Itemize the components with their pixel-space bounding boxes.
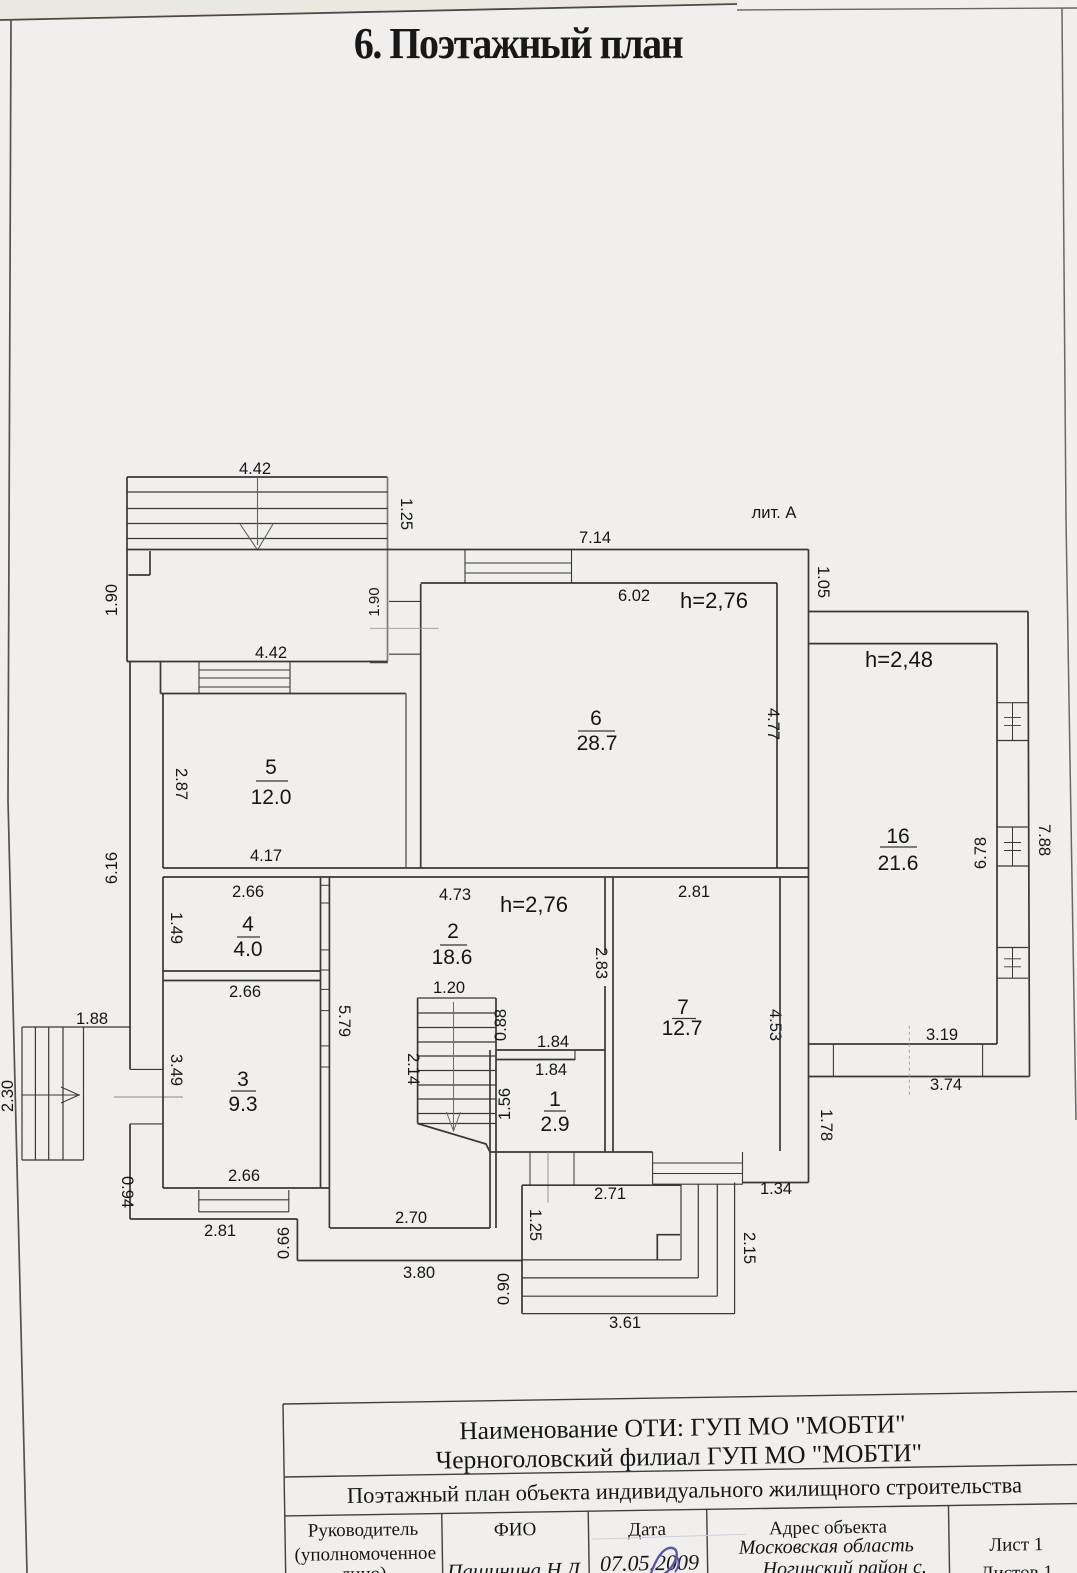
- stairs block: [417, 998, 419, 1124]
- wall rooms 2/7: [604, 877, 606, 953]
- svg-text:0.94: 0.94: [118, 1176, 136, 1208]
- svg-text:лит. А: лит. А: [752, 504, 797, 522]
- dim line 4.42 lower: [127, 661, 388, 663]
- faint guide line in date cell: [592, 1534, 746, 1539]
- room6 inner right wall: [776, 583, 778, 868]
- left porch steps: [21, 1027, 23, 1160]
- svg-text:2.83: 2.83: [592, 947, 610, 979]
- svg-text:2.30: 2.30: [0, 1080, 17, 1112]
- svg-text:(уполномоченное: (уполномоченное: [294, 1543, 436, 1566]
- door dash left: [114, 1096, 183, 1098]
- window room6 top: [464, 550, 466, 583]
- svg-text:h=2,76: h=2,76: [680, 588, 748, 613]
- stairs bevel: [418, 1124, 490, 1153]
- wall connector: [160, 662, 162, 694]
- wing windows right wall: [997, 702, 1028, 704]
- svg-text:Лист 1: Лист 1: [989, 1534, 1043, 1556]
- svg-text:h=2,48: h=2,48: [865, 647, 933, 672]
- svg-text:4.77: 4.77: [764, 708, 782, 740]
- svg-text:5.79: 5.79: [335, 1005, 353, 1037]
- title block table: [283, 1391, 1077, 1573]
- wing bottom door band: [832, 1044, 834, 1077]
- mid ticks 1.90: [389, 600, 421, 602]
- window room5 top: [198, 662, 200, 694]
- svg-text:4.42: 4.42: [239, 460, 271, 478]
- room1 walls: [489, 1050, 491, 1152]
- svg-text:7.88: 7.88: [1035, 824, 1053, 856]
- main outer right wall x808: [808, 550, 810, 1183]
- svg-text:1.56: 1.56: [496, 1088, 514, 1120]
- room1 top wall: [496, 1049, 605, 1051]
- table divider 2: [285, 1503, 1077, 1516]
- svg-text:3.61: 3.61: [609, 1314, 641, 1332]
- svg-text:2.66: 2.66: [232, 883, 264, 901]
- left outer wall: [129, 662, 131, 1070]
- stairs down arrow: [453, 1002, 455, 1131]
- svg-text:2.70: 2.70: [395, 1209, 427, 1227]
- svg-text:6.16: 6.16: [103, 852, 121, 884]
- wing outer bottom wall: [809, 1076, 1030, 1078]
- room7 underline: [672, 1018, 696, 1020]
- table left border: [283, 1404, 286, 1573]
- svg-text:4.0: 4.0: [233, 938, 262, 961]
- svg-text:0.90: 0.90: [495, 1273, 513, 1305]
- svg-text:ФИО: ФИО: [494, 1519, 537, 1541]
- svg-text:3.74: 3.74: [930, 1076, 962, 1094]
- svg-text:4.73: 4.73: [439, 886, 471, 904]
- svg-text:4.17: 4.17: [250, 847, 282, 865]
- bottom wall right part: [743, 1182, 809, 1184]
- table v1: [442, 1514, 443, 1573]
- svg-text:2.15: 2.15: [740, 1232, 758, 1264]
- svg-text:2.81: 2.81: [204, 1222, 236, 1240]
- svg-text:7.14: 7.14: [579, 529, 611, 547]
- room7 inner right wall: [779, 877, 781, 1151]
- wall mid horizontal lower: [163, 876, 809, 878]
- svg-text:1.88: 1.88: [76, 1010, 108, 1028]
- svg-text:18.6: 18.6: [432, 946, 473, 969]
- porch post square: [657, 1235, 680, 1260]
- svg-text:лицо): лицо): [341, 1563, 387, 1573]
- table v3: [707, 1509, 708, 1573]
- svg-text:Ногинский район с.: Ногинский район с.: [761, 1556, 927, 1573]
- room1 underline: [544, 1110, 566, 1112]
- terrace down arrow: [257, 477, 259, 545]
- room3 underline: [231, 1090, 256, 1092]
- svg-text:2.66: 2.66: [228, 1167, 260, 1185]
- svg-text:2.87: 2.87: [172, 768, 190, 800]
- room2 underline: [440, 944, 467, 946]
- svg-text:2.14: 2.14: [404, 1053, 422, 1085]
- svg-text:6: 6: [590, 707, 602, 730]
- paper right edge: [1062, 8, 1076, 1120]
- svg-text:3.80: 3.80: [403, 1264, 435, 1282]
- terrace outline top-left: [127, 476, 388, 478]
- stairs steps: [418, 997, 496, 999]
- wing top wall: [809, 611, 1029, 613]
- room6 inner top: [421, 582, 777, 584]
- svg-text:1.25: 1.25: [397, 498, 415, 530]
- svg-text:1: 1: [549, 1088, 561, 1111]
- svg-text:6.78: 6.78: [972, 837, 990, 869]
- svg-text:1.20: 1.20: [433, 979, 465, 997]
- wall mid horizontal upper: [163, 867, 809, 869]
- svg-text:2.71: 2.71: [594, 1185, 626, 1203]
- svg-text:5: 5: [265, 756, 277, 779]
- svg-text:1.90: 1.90: [366, 587, 383, 616]
- terrace hatch lines: [127, 491, 388, 493]
- table divider 1: [284, 1464, 1077, 1477]
- svg-text:1.05: 1.05: [814, 566, 832, 598]
- svg-text:Руководитель: Руководитель: [308, 1519, 419, 1542]
- svg-text:2.9: 2.9: [540, 1113, 569, 1136]
- window below room3: [198, 1190, 200, 1212]
- svg-text:3.19: 3.19: [926, 1026, 958, 1044]
- table v4: [948, 1506, 949, 1573]
- svg-text:4.42: 4.42: [255, 644, 287, 662]
- svg-text:1.84: 1.84: [537, 1033, 569, 1051]
- left inner wall: [162, 694, 164, 869]
- svg-text:3: 3: [237, 1068, 249, 1091]
- svg-text:21.6: 21.6: [878, 852, 919, 875]
- room2 bottom wall: [330, 1227, 490, 1229]
- svg-text:1.34: 1.34: [760, 1180, 792, 1198]
- svg-text:2.66: 2.66: [229, 983, 261, 1001]
- svg-text:4: 4: [242, 913, 254, 936]
- svg-text:2: 2: [447, 920, 459, 943]
- svg-text:3.49: 3.49: [167, 1054, 185, 1086]
- svg-text:6.02: 6.02: [618, 587, 650, 605]
- room16 inner bottom wall: [809, 1043, 998, 1045]
- room16 inner right wall: [996, 644, 998, 1044]
- wall rooms4/3: [163, 970, 321, 972]
- svg-text:2.81: 2.81: [678, 883, 710, 901]
- svg-text:07.05.2009: 07.05.2009: [600, 1549, 699, 1573]
- door jamb lines below room1: [529, 1152, 531, 1185]
- svg-text:1.84: 1.84: [535, 1061, 567, 1079]
- svg-text:h=2,76: h=2,76: [500, 892, 568, 917]
- table v2: [588, 1511, 589, 1573]
- paper top edge: [0, 4, 737, 20]
- svg-text:16: 16: [886, 825, 909, 848]
- svg-text:4.53: 4.53: [766, 1009, 784, 1041]
- room4 underline: [237, 936, 260, 938]
- svg-text:Московская область: Московская область: [738, 1534, 914, 1559]
- svg-text:Пашинина Н.Д: Пашинина Н.Д: [446, 1557, 582, 1573]
- wing outer right wall: [1028, 612, 1030, 1077]
- corridor wall double: [320, 877, 322, 1188]
- room5 top wall: [161, 693, 407, 695]
- room5 underline: [256, 780, 288, 782]
- svg-text:1.49: 1.49: [167, 912, 185, 944]
- bottom outer wall 3.80: [297, 1260, 522, 1262]
- room3 bottom wall: [163, 1187, 329, 1189]
- step edge: [296, 1219, 298, 1261]
- window bottom room7: [652, 1152, 654, 1184]
- wall room5/room6: [405, 694, 407, 869]
- pen mark over date: [651, 1548, 677, 1573]
- room16 underline: [880, 846, 917, 848]
- porch arrow: [22, 1094, 80, 1096]
- svg-text:0.88: 0.88: [492, 1009, 510, 1041]
- bottom porch steps: [521, 1185, 523, 1313]
- svg-text:1.78: 1.78: [817, 1109, 835, 1141]
- table top border: [283, 1391, 1077, 1404]
- room6 underline: [578, 730, 615, 732]
- house top wall y549: [127, 549, 809, 551]
- room16 inner top wall: [809, 643, 998, 645]
- porch top / dim 1.88 line: [22, 1026, 131, 1028]
- paper left edge: [8, 20, 27, 1573]
- svg-text:12.0: 12.0: [251, 786, 292, 809]
- svg-text:0.66: 0.66: [275, 1227, 293, 1259]
- svg-text:9.3: 9.3: [228, 1093, 257, 1116]
- room2 left lower wall: [328, 1188, 330, 1228]
- top wall notch: [149, 551, 151, 575]
- svg-text:28.7: 28.7: [577, 732, 618, 755]
- svg-text:12.7: 12.7: [662, 1017, 703, 1040]
- svg-text:6. Поэтажный план: 6. Поэтажный план: [354, 20, 684, 68]
- svg-text:1.90: 1.90: [103, 584, 121, 616]
- bottom wall rooms1/7: [490, 1151, 653, 1153]
- bottom left outer wall: [130, 1218, 297, 1220]
- svg-text:1.25: 1.25: [526, 1209, 544, 1241]
- svg-text:7: 7: [677, 996, 689, 1019]
- svg-text:Листов 1: Листов 1: [980, 1562, 1053, 1573]
